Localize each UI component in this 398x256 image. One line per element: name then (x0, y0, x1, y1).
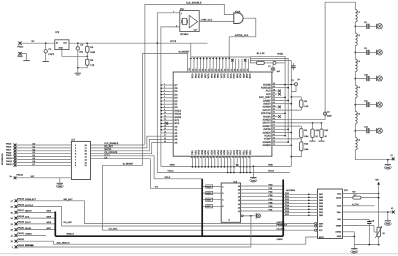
AND gate IC6A (234, 11, 243, 24)
wire SCLK net (91, 156, 203, 179)
svg-text:IC3: IC3 (55, 31, 60, 34)
wire nested corner 2 (250, 58, 288, 142)
svg-text:35: 35 (206, 156, 209, 158)
IC2 top pins (191, 59, 249, 72)
no-connect X right pin 3 (278, 90, 281, 93)
svg-text:VCC3: VCC3 (168, 170, 175, 173)
svg-text:1: 1 (173, 10, 174, 13)
svg-text:24C: 24C (31, 175, 35, 178)
svg-text:33pF: 33pF (327, 115, 332, 118)
wire ADC CLKI A_CLK (343, 203, 375, 206)
svg-text:1: 1 (164, 82, 165, 85)
svg-text:PAD19: PAD19 (18, 221, 25, 224)
inductor L2 (355, 33, 360, 46)
no-connect X on left pin (165, 122, 168, 125)
svg-text:83: 83 (243, 69, 246, 71)
wire ladder segment 1 (354, 22, 356, 33)
svg-text:88: 88 (227, 69, 230, 71)
capacitor C4 33pF (324, 111, 333, 118)
ground symbol below IC2 (250, 178, 257, 183)
svg-text:55: 55 (273, 98, 275, 101)
svg-text:7: 7 (164, 102, 165, 105)
svg-text:60: 60 (273, 82, 275, 85)
ground symbol under R13 (318, 138, 324, 142)
net labels IC7 outputs (104, 142, 119, 160)
resistor R5 175 (86, 59, 95, 67)
svg-text:GND: GND (337, 235, 342, 238)
svg-text:PAD22: PAD22 (18, 238, 25, 241)
wire SDATA staircase (91, 136, 161, 148)
svg-text:PAD18: PAD18 (18, 215, 25, 218)
wire pin to R9 (278, 126, 302, 129)
svg-text:5: 5 (164, 95, 165, 98)
svg-text:31: 31 (219, 156, 222, 158)
svg-text:28: 28 (228, 156, 231, 158)
svg-text:C900S: C900S (277, 238, 284, 241)
svg-text:VCC3: VCC3 (268, 170, 275, 173)
svg-text:GND: GND (170, 164, 175, 167)
bus WDB horizontal (thick) (55, 233, 283, 237)
svg-text:51: 51 (273, 111, 275, 114)
wire VCC5 feed down (to VCC3 rail) (156, 43, 158, 172)
net labels D0-D7 (33, 143, 37, 166)
IC2 left pin dots (160, 84, 162, 130)
wire pin to R10 (278, 139, 302, 142)
wire staircase 2 (91, 139, 161, 150)
svg-text:84: 84 (239, 69, 242, 71)
ADC control pin labels (319, 222, 324, 238)
inductor L3 (355, 59, 360, 72)
wire CS00S stub (18, 235, 47, 237)
svg-text:46: 46 (273, 127, 275, 130)
svg-text:GND: GND (386, 223, 391, 226)
wire VCC5 rail (69, 40, 208, 43)
svg-text:VD3: VD3 (229, 74, 232, 79)
wire +5V rail (5V) (21, 40, 55, 43)
svg-text:25: 25 (238, 156, 241, 158)
wire DAC out top loop (325, 2, 355, 120)
svg-text:52: 52 (273, 108, 275, 111)
svg-text:37: 37 (199, 156, 202, 158)
oscillator IC5 crystal symbol (182, 18, 188, 24)
svg-text:58: 58 (273, 88, 275, 91)
svg-text:27: 27 (231, 156, 234, 158)
wire pin 5 to bus (278, 97, 286, 99)
wire VCC3 rail under IC2 (157, 170, 289, 173)
svg-text:A_CLK: A_CLK (352, 203, 359, 206)
svg-text:2: 2 (164, 86, 165, 89)
bus name vertical text (1, 153, 4, 165)
wire staircase 3 (91, 143, 161, 154)
svg-text:16: 16 (164, 130, 166, 133)
svg-text:99: 99 (191, 69, 194, 71)
wire nested corner 1 (250, 56, 285, 135)
wire pin DOUT to C4 (278, 119, 326, 121)
ground symbol near input pad (384, 221, 391, 226)
inductor L5 (355, 111, 360, 124)
ADC data pin labels (319, 193, 324, 217)
IC2 left pins (161, 85, 173, 143)
svg-text:53: 53 (273, 104, 275, 107)
wires to WDB bus with ripper labels (18, 210, 56, 230)
capacitor C12 (354, 126, 377, 134)
IC2 bottom pin labels (191, 149, 252, 155)
svg-text:PAD15: PAD15 (18, 198, 25, 201)
wire ladder bottom return (355, 150, 392, 160)
pad PAD13 (10, 173, 24, 179)
svg-text:8: 8 (164, 105, 165, 108)
pad ladder return (391, 154, 395, 160)
svg-text:26: 26 (235, 156, 238, 158)
svg-text:VD5: VD5 (191, 74, 194, 79)
resistor R4 10M (86, 43, 95, 54)
wire analog gnd vertical (291, 145, 293, 166)
svg-text:PAD13: PAD13 (17, 173, 24, 176)
wire M_RESET top rail (142, 51, 190, 72)
output jack J1 (377, 24, 383, 29)
labels PAD5-PAD12 (6, 143, 13, 166)
output jack J4 (377, 102, 383, 107)
svg-text:GATED_CLK: GATED_CLK (235, 34, 249, 37)
IC2 bottom pin dots (192, 166, 251, 168)
capacitor C7 1uF (268, 64, 281, 73)
wire ladder segment 5 (354, 124, 356, 138)
svg-text:D5A: D5A (213, 74, 216, 79)
wire IC3 GND pin (62, 50, 87, 57)
svg-text:VREF: VREF (336, 224, 342, 227)
page bottom border (0, 253, 398, 255)
svg-text:STROBE: STROBE (25, 244, 34, 247)
no-connect X on top pin 2 (244, 59, 247, 62)
svg-text:DQ_SET: DQ_SET (104, 145, 113, 148)
wire R5 bottom to C3 bottom (78, 65, 88, 68)
svg-text:34: 34 (209, 156, 212, 158)
svg-text:M_RESET: M_RESET (179, 51, 190, 54)
svg-text:D7A: D7A (219, 74, 222, 79)
svg-text:PAD9: PAD9 (6, 154, 12, 157)
bus vertical mid (thick) (201, 179, 203, 236)
output jack J5 (377, 128, 383, 133)
svg-text:A1B: A1B (239, 74, 242, 79)
IC2 left pin numbers (164, 82, 166, 143)
wire CLK_ENABLE top net (145, 2, 234, 145)
svg-text:CS_UPDATE: CS_UPDATE (104, 151, 118, 154)
ADC IC9 box (286, 189, 348, 239)
svg-text:41: 41 (273, 143, 275, 146)
voltage regulator IC3 (55, 31, 69, 50)
trimmer R11 1K (377, 227, 386, 237)
svg-text:29: 29 (225, 156, 228, 158)
capacitor C3 10u (76, 43, 84, 68)
svg-text:D6A: D6A (216, 74, 219, 79)
connector pad PAD4 (+5V input) (18, 42, 25, 49)
svg-text:10M: 10M (304, 148, 308, 151)
ferrite bead circle (273, 52, 284, 64)
IC2 right pin labels (259, 83, 271, 147)
wire ADC CLKR via R7 (343, 194, 358, 198)
output jack J3 (377, 76, 383, 81)
no-connect X on top pin (231, 59, 234, 62)
svg-text:10: 10 (164, 111, 166, 114)
wire R7 to +5V vertical (361, 197, 380, 199)
ground symbol under C1 (43, 61, 49, 63)
svg-text:D3A: D3A (203, 74, 206, 79)
svg-text:43: 43 (273, 136, 275, 139)
resistor R9 10M (300, 129, 309, 138)
pads PAD5-PAD12 (14, 144, 17, 167)
wires IC4 outputs to ADC data bus (238, 184, 309, 216)
wire pin 19 to bus (278, 141, 290, 143)
svg-text:A2B: A2B (242, 74, 245, 79)
svg-text:CS_ADC: CS_ADC (109, 227, 118, 230)
wire pin 20 to bus (278, 145, 293, 147)
oscillator IC5 buffer triangle (181, 12, 198, 31)
ground symbol under R12 (309, 138, 315, 142)
wire ladder return gnd stem (387, 159, 389, 164)
svg-text:94: 94 (207, 69, 210, 71)
IC2 right pin numbers (273, 82, 275, 146)
svg-text:GN2: GN2 (232, 74, 235, 80)
wire pin to R12/R13 rail (278, 122, 323, 124)
svg-text:PAD16: PAD16 (18, 203, 25, 206)
svg-text:33: 33 (212, 156, 215, 158)
junction GND stub (253, 166, 255, 168)
svg-text:PAD8: PAD8 (6, 151, 12, 154)
svg-text:PAD4: PAD4 (18, 45, 25, 48)
wire IC5 pin2 down left-pin bus (161, 27, 180, 167)
wires parallel port data lines (16, 145, 71, 165)
svg-text:SCLK: SCLK (104, 154, 110, 157)
ground symbol at input (23, 60, 29, 62)
svg-text:PAD17: PAD17 (18, 209, 25, 212)
svg-text:86: 86 (233, 69, 236, 71)
capacitor C6 (291, 63, 295, 70)
wire B1 to bead (264, 62, 273, 64)
IC2 top pin labels (191, 74, 252, 80)
svg-text:ADC0804: ADC0804 (286, 189, 296, 192)
resistor R10 10M (300, 138, 309, 152)
svg-text:PAD23: PAD23 (18, 244, 25, 247)
wire GND pad to ground (21, 54, 26, 61)
IC2 bottom pin numbers (190, 156, 251, 158)
svg-text:19: 19 (164, 140, 166, 143)
wire stem to ground (77, 68, 79, 73)
svg-text:PAD7: PAD7 (6, 148, 12, 151)
wire STROBE to IC4 (18, 216, 251, 247)
wire pin 6 to bus (278, 100, 290, 102)
junction gnd node (77, 67, 79, 69)
svg-text:M_RESET: M_RESET (123, 162, 134, 165)
connector pin symbol (256, 213, 260, 219)
resistor R8 1.5K (291, 96, 310, 108)
svg-text:RD_ADC: RD_ADC (64, 221, 73, 224)
wire ADC VIN+ to input pad (343, 211, 393, 213)
wire VCC5 drop to top pin rail (190, 43, 192, 57)
wire AVDD corner B1 (250, 57, 256, 63)
svg-text:PAD12: PAD12 (6, 163, 13, 166)
net labels at ADC control wires (277, 221, 288, 241)
svg-text:23: 23 (244, 156, 247, 158)
junction EN/VCC5 (156, 42, 158, 44)
svg-text:D0A: D0A (194, 74, 197, 79)
svg-text:GND: GND (251, 179, 256, 182)
svg-text:10M: 10M (90, 51, 95, 54)
svg-text:13: 13 (164, 121, 166, 124)
svg-text:91: 91 (217, 69, 220, 71)
junction R4/R5 (86, 52, 88, 59)
svg-text:54: 54 (273, 101, 275, 104)
svg-text:45: 45 (273, 130, 275, 133)
wire ladder segment 2 (354, 46, 356, 60)
IC2 right pins (272, 85, 278, 146)
IC2 bottom pins (192, 156, 250, 167)
wire ADC VIN- to C13 gnd (343, 218, 370, 220)
svg-text:CLK_ENABLE: CLK_ENABLE (186, 2, 202, 5)
ADC right pin labels (335, 192, 342, 238)
capacitor C11 (354, 99, 377, 107)
svg-text:/RD: /RD (319, 225, 323, 228)
ADC control pin bubbles (315, 223, 317, 232)
capacitor C13 (367, 219, 375, 244)
wire ladder segment 4 (354, 98, 356, 112)
IC2 top pin numbers (188, 68, 249, 71)
wire AUTOLF/RD_ADC (18, 207, 315, 226)
svg-text:D2A: D2A (200, 74, 203, 79)
svg-text:+1: +1 (228, 219, 230, 222)
svg-text:17: 17 (164, 134, 166, 137)
wire stem to GND under IC7 (59, 178, 61, 183)
wire pin 10 to R8 (278, 107, 302, 110)
wire PRSELECT/WR_ADC (18, 198, 315, 224)
svg-text:92: 92 (214, 69, 217, 71)
svg-text:CS: CS (155, 185, 159, 188)
wire stem GND symbol (252, 166, 254, 177)
wire pin 11 to bus (278, 113, 286, 115)
no-connect X right pin 8 (278, 106, 281, 109)
svg-text:12: 12 (164, 118, 166, 121)
resistor B1 1.3K (257, 52, 266, 64)
trimmer arrow (375, 226, 382, 238)
svg-text:PAD6: PAD6 (6, 146, 12, 149)
svg-text:40: 40 (190, 156, 193, 158)
wire CLK_ENABLE from IC7 (91, 144, 145, 146)
svg-text:CLK_ENABLE: CLK_ENABLE (104, 142, 119, 145)
svg-text:22: 22 (247, 156, 250, 158)
svg-text:18: 18 (164, 137, 166, 140)
svg-text:D4A: D4A (210, 74, 213, 79)
svg-text:97: 97 (198, 69, 201, 71)
svg-text:9: 9 (164, 108, 165, 111)
ADC data pin stubs (308, 194, 318, 217)
wire ladder segment 3 (354, 72, 356, 86)
capacitor C1 CAP1 (44, 43, 55, 61)
svg-text:49: 49 (273, 117, 275, 120)
svg-text:GND: GND (18, 55, 23, 58)
inductor L1 (355, 10, 360, 23)
svg-text:AGND9: AGND9 (262, 144, 271, 147)
wire REF_CLK to gate (199, 18, 234, 21)
pad analog input (391, 207, 395, 213)
wire IC5 EN pin to VCC5 (157, 10, 180, 43)
ground symbol under IC7 (56, 183, 63, 188)
svg-text:93: 93 (211, 69, 214, 71)
capacitor C10 (354, 73, 377, 81)
wire nested corner 3 (250, 61, 291, 146)
svg-text:PAD10: PAD10 (6, 157, 13, 160)
svg-text:44: 44 (273, 133, 275, 136)
svg-text:INTR: INTR (319, 236, 324, 239)
svg-text:GND: GND (268, 163, 273, 166)
svg-text:3: 3 (164, 89, 165, 92)
wires WDB bus to IC4 inputs (201, 185, 224, 208)
wire GATED_CLK (229, 18, 256, 58)
svg-text:5V: 5V (32, 40, 35, 43)
wire analog ground rail (354, 237, 379, 246)
no-connect X right pin 12 (278, 115, 281, 118)
svg-text:30: 30 (222, 156, 225, 158)
svg-text:1 REF_CLK: 1 REF_CLK (201, 18, 213, 21)
output jack J2 (377, 50, 383, 55)
power arrow +5V (375, 178, 380, 193)
IC2 left pin labels (174, 84, 181, 145)
svg-text:CAP1: CAP1 (48, 53, 55, 56)
svg-text:SDATA: SDATA (104, 148, 112, 151)
wire pin 16 to bus (278, 132, 293, 134)
svg-text:15: 15 (164, 127, 166, 130)
svg-text:47: 47 (273, 124, 275, 127)
ground symbol under C3 (75, 73, 81, 75)
svg-text:PAD11: PAD11 (6, 160, 13, 163)
wire GND rail under IC2 (161, 163, 291, 166)
IC4 pin 11 label (228, 219, 230, 222)
connector pad GND input (18, 52, 23, 58)
wire ADC GND pin (343, 236, 356, 238)
wire pin 2 to bus (278, 87, 290, 89)
wire top pin rail (191, 56, 251, 58)
svg-text:A3B: A3B (245, 74, 248, 79)
svg-text:SCLK: SCLK (165, 176, 171, 179)
svg-text:PAD20: PAD20 (18, 226, 25, 229)
svg-text:50: 50 (273, 114, 275, 117)
svg-text:WR_ADC: WR_ADC (64, 198, 74, 201)
svg-text:AGND: AGND (335, 231, 341, 234)
svg-text:AVDD: AVDD (277, 52, 283, 55)
svg-text:89: 89 (223, 69, 226, 71)
wire VIN+ gnd branch (387, 211, 389, 220)
ground symbol ladder (384, 165, 391, 170)
inductor L6 (355, 137, 360, 150)
wire PAD13 to IC7 (16, 175, 71, 178)
svg-text:RD1: RD1 (249, 149, 252, 154)
svg-text:IO: IO (391, 207, 394, 210)
IC4 inverter output bubble (241, 215, 256, 217)
svg-text:96: 96 (201, 69, 204, 71)
svg-text:D1A: D1A (197, 74, 200, 79)
junction C1 (45, 42, 47, 44)
svg-text:VDB: VDB (248, 74, 251, 79)
svg-text:CS: CS (104, 157, 108, 160)
svg-text:11: 11 (164, 114, 166, 117)
wire gnd rail stem (353, 245, 355, 249)
svg-text:10M: 10M (304, 135, 308, 138)
svg-text:VCC: VCC (337, 192, 342, 195)
svg-text:GND: GND (59, 46, 64, 49)
wire +5V vertical to trimmer (378, 194, 380, 228)
svg-text:VIN-: VIN- (337, 218, 341, 221)
svg-text:ADC_REACH: ADC_REACH (57, 241, 70, 244)
wire M_RESET vertical (103, 53, 143, 165)
wire bead to bus (276, 62, 285, 64)
